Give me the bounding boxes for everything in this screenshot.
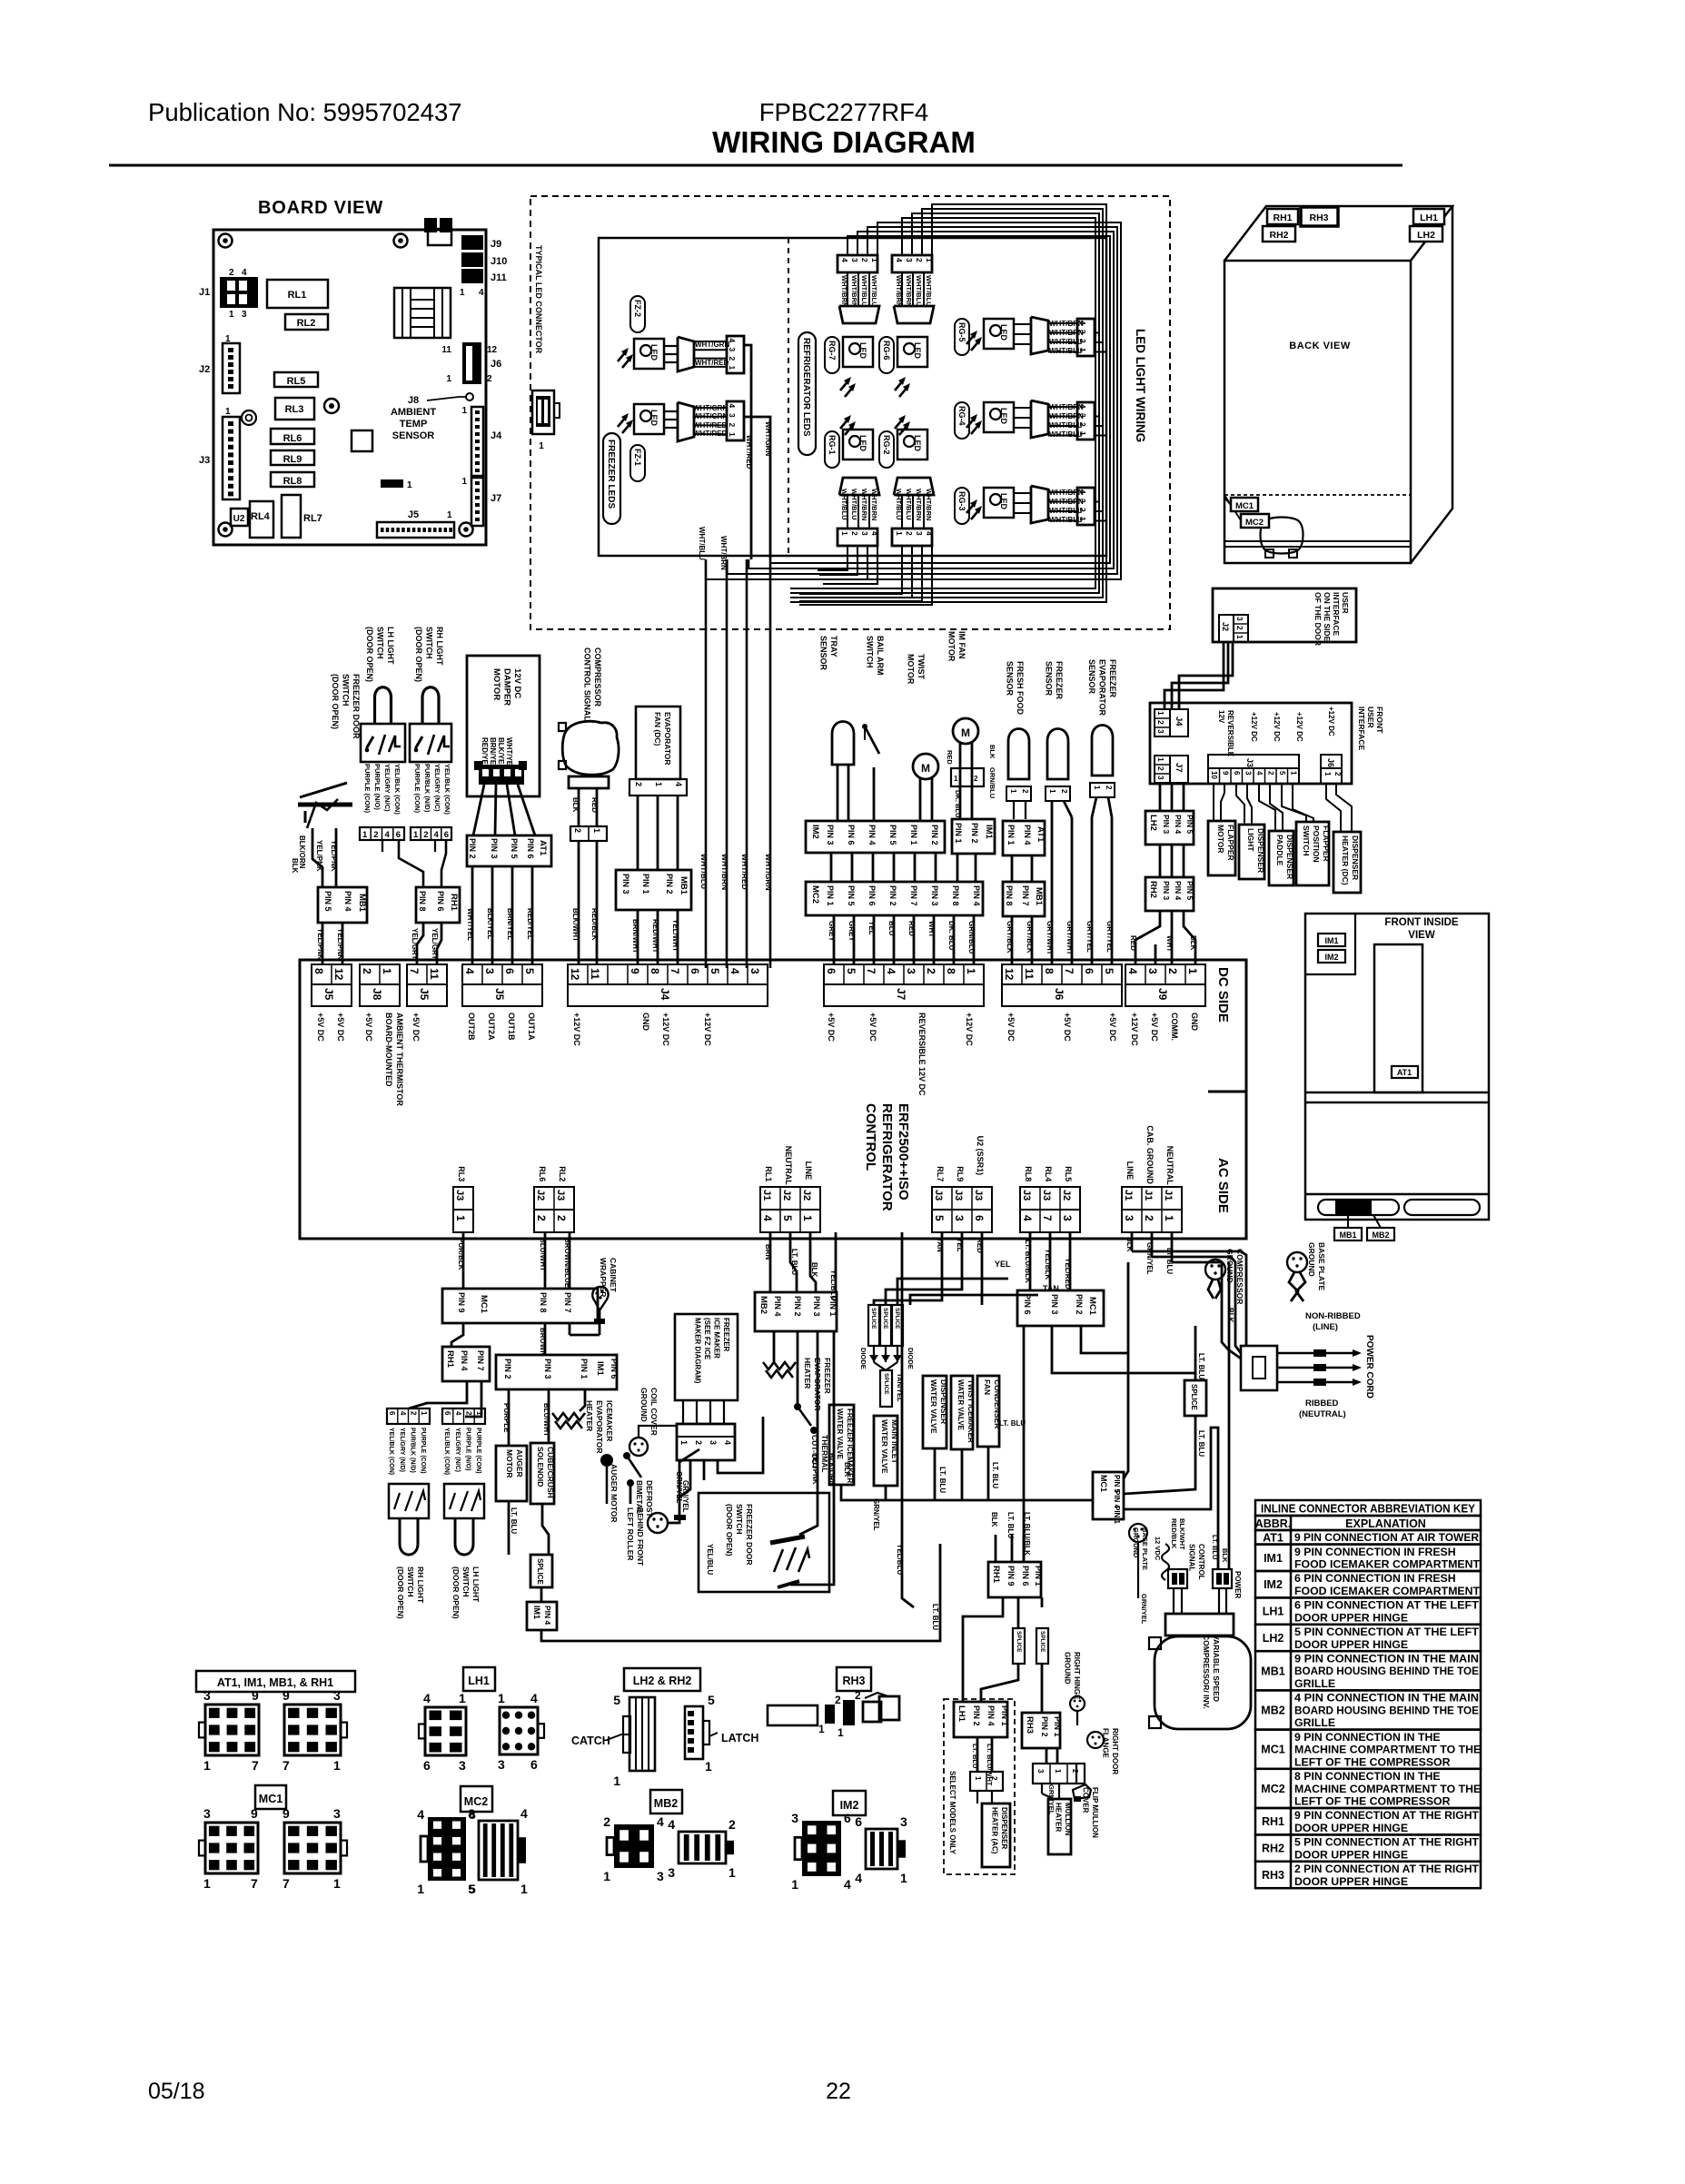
svg-text:4: 4: [1126, 968, 1139, 974]
RG-4 stadium label: [955, 402, 969, 439]
label MC2 back view: [1241, 514, 1269, 528]
wire IM1 pin4 to right rail: [541, 1544, 940, 1641]
bottom connector key MB2 label: [650, 1790, 682, 1813]
LED harness to RG-5: [1095, 322, 1095, 324]
svg-text:RG-3: RG-3: [957, 491, 966, 511]
svg-text:8: 8: [649, 968, 661, 974]
svg-text:LT. BLU: LT. BLU: [931, 1604, 939, 1630]
svg-text:BLU/WHT: BLU/WHT: [542, 1403, 550, 1437]
small component square: [352, 430, 372, 451]
label MB2 front view: [1367, 1228, 1394, 1240]
svg-text:PIN 2: PIN 2: [972, 1705, 981, 1726]
splice bank (3 splices): [868, 1305, 879, 1346]
svg-text:RED/WHT: RED/WHT: [651, 919, 659, 953]
svg-text:4: 4: [885, 968, 897, 974]
svg-text:DIODE: DIODE: [859, 1348, 867, 1369]
svg-text:GREY: GREY: [847, 921, 856, 942]
GRN/YEL ground wire inverter: [1137, 1562, 1139, 1598]
svg-text:OUT2B: OUT2B: [467, 1013, 476, 1041]
svg-text:2: 2: [229, 268, 234, 278]
svg-text:PIN 3: PIN 3: [1162, 815, 1171, 835]
wire RED from J3-6: [981, 1232, 984, 1305]
svg-text:05/18: 05/18: [148, 2079, 205, 2104]
wire BROWN/BLUE: [569, 1232, 571, 1289]
svg-text:RL6: RL6: [283, 433, 302, 444]
svg-text:(DOOR OPEN): (DOOR OPEN): [451, 1566, 461, 1619]
svg-text:2: 2: [1060, 789, 1068, 794]
wires RH1 to J5: [417, 923, 423, 964]
freezer LED FZ-2 stadium label: [630, 296, 645, 332]
svg-text:2: 2: [373, 830, 378, 840]
RH light switch connector pins 1 2 4 6: [411, 827, 451, 840]
svg-text:2: 2: [1156, 766, 1165, 771]
svg-text:COVER: COVER: [1082, 1787, 1090, 1813]
svg-text:J3: J3: [199, 455, 210, 466]
svg-text:1: 1: [1163, 1215, 1175, 1221]
svg-text:4: 4: [925, 531, 934, 536]
svg-text:SWITCH: SWITCH: [461, 1566, 471, 1597]
svg-text:7: 7: [865, 968, 877, 974]
svg-text:LT. BLU: LT. BLU: [510, 1507, 518, 1534]
svg-text:AT1, IM1, MB1, & RH1: AT1, IM1, MB1, & RH1: [217, 1676, 333, 1689]
refrigerator LED RG-3: [966, 486, 1095, 525]
bottom connector key AT1 IM1 MB1 RH1 label: [196, 1671, 355, 1692]
svg-text:OUT1B: OUT1B: [507, 1013, 516, 1041]
svg-text:MC1: MC1: [1235, 501, 1254, 511]
compressor ground symbol: [1205, 1260, 1225, 1280]
svg-text:2: 2: [465, 1411, 473, 1416]
svg-text:RED: RED: [1129, 935, 1137, 951]
svg-text:MC1: MC1: [479, 1295, 489, 1314]
svg-text:INLINE CONNECTOR ABBREVIATION: INLINE CONNECTOR ABBREVIATION KEY: [1261, 1503, 1476, 1516]
svg-text:M: M: [921, 762, 930, 775]
svg-text:COMPRESSOR: COMPRESSOR: [593, 647, 602, 707]
svg-text:2: 2: [1021, 789, 1029, 794]
svg-text:RL9: RL9: [956, 1166, 965, 1181]
svg-text:RG-5: RG-5: [957, 322, 966, 342]
wire YEL from J3-3: [886, 1232, 962, 1305]
svg-text:+12V DC: +12V DC: [1130, 1013, 1139, 1046]
svg-text:1: 1: [333, 1876, 341, 1891]
svg-text:WHT/BRN: WHT/BRN: [1049, 412, 1084, 420]
RG-6 stadium label: [879, 337, 894, 373]
svg-text:FREEZER: FREEZER: [722, 1318, 730, 1352]
svg-text:CAB. GROUND: CAB. GROUND: [1145, 1125, 1155, 1184]
svg-text:YEL/RED: YEL/RED: [1064, 1258, 1072, 1290]
bottom connector key LH2 RH2 label: [624, 1668, 700, 1691]
svg-text:2: 2: [728, 357, 737, 361]
svg-text:PIN 6: PIN 6: [867, 885, 877, 906]
svg-text:5 PIN CONNECTION AT THE RIGHT: 5 PIN CONNECTION AT THE RIGHT: [1294, 1836, 1479, 1849]
connector MC2 row: [806, 882, 983, 915]
base plate ground symbol top: [1287, 1252, 1307, 1272]
svg-text:LH1: LH1: [468, 1675, 490, 1687]
svg-text:WHT/BRN: WHT/BRN: [1049, 403, 1084, 411]
svg-text:4: 4: [520, 1806, 528, 1821]
freezer evap sensor wires to J6: [1092, 797, 1096, 817]
RH3 connector housing: [768, 1705, 818, 1725]
light switch LH LIGHT: [442, 1408, 485, 1424]
variable speed compressor blob: [1155, 1636, 1251, 1729]
wire WHT/BRN from LED box: [726, 559, 729, 968]
splice box icemaker: [530, 1555, 552, 1587]
svg-text:LT. BLU: LT. BLU: [999, 1419, 1026, 1428]
svg-text:PURPLE (CON): PURPLE (CON): [420, 1428, 426, 1474]
freezer LED wires down: [744, 345, 751, 559]
svg-text:RL8: RL8: [1024, 1166, 1033, 1181]
svg-text:AUGER: AUGER: [515, 1449, 524, 1477]
svg-text:5: 5: [613, 1693, 620, 1707]
svg-text:PIN 2: PIN 2: [503, 1359, 512, 1379]
svg-text:PIN 2: PIN 2: [930, 825, 939, 845]
RH3 pin pair 2: [843, 1700, 855, 1725]
svg-text:MC1: MC1: [1099, 1475, 1108, 1492]
svg-text:1: 1: [1235, 635, 1244, 639]
hinge label RH1: [1267, 209, 1298, 224]
svg-text:2: 2: [915, 258, 924, 262]
base plate ground lower: [1129, 1524, 1147, 1542]
svg-text:WHT/RED: WHT/RED: [745, 435, 753, 469]
svg-text:(DOOR OPEN): (DOOR OPEN): [331, 674, 340, 729]
condenser fan box: [977, 1376, 999, 1447]
wire YEL/BLK from J3-7: [1049, 1232, 1052, 1290]
freezer sensor wires to J6: [1051, 801, 1054, 964]
svg-text:LH1: LH1: [956, 1705, 966, 1723]
svg-text:2: 2: [850, 531, 859, 536]
svg-text:BLK: BLK: [1189, 935, 1197, 951]
svg-text:MC2: MC2: [1261, 1783, 1284, 1795]
svg-text:(DOOR OPEN): (DOOR OPEN): [725, 1504, 734, 1556]
svg-text:3: 3: [333, 1688, 341, 1703]
svg-text:FAN (DC): FAN (DC): [653, 712, 662, 746]
svg-text:6: 6: [855, 1814, 862, 1829]
wire WHT/BLU from LED box: [705, 559, 708, 968]
svg-text:MB2: MB2: [1372, 1230, 1389, 1240]
svg-text:PIN 6: PIN 6: [1023, 1294, 1032, 1315]
svg-text:LT. BLU: LT. BLU: [1006, 1512, 1015, 1538]
svg-text:1: 1: [900, 1871, 907, 1885]
svg-text:2: 2: [990, 1776, 998, 1781]
svg-text:GROUND: GROUND: [639, 1388, 649, 1422]
svg-text:WHT/BLU: WHT/BLU: [840, 489, 848, 520]
svg-text:YEL/WHT: YEL/WHT: [671, 919, 679, 952]
svg-text:PIN 8: PIN 8: [539, 1292, 548, 1313]
cabinet wrapper ground symbol: [592, 1287, 608, 1310]
svg-text:1: 1: [1290, 771, 1298, 776]
svg-text:PIN 1: PIN 1: [641, 874, 650, 894]
svg-text:6: 6: [444, 830, 449, 840]
svg-text:PIN 1: PIN 1: [1000, 1705, 1009, 1726]
svg-text:PIN 6: PIN 6: [1021, 1566, 1030, 1586]
svg-text:3: 3: [1235, 617, 1244, 621]
svg-text:AT1: AT1: [1036, 826, 1046, 843]
refrigerator LED RG-5: [966, 317, 1095, 356]
label IM1 front view: [1318, 934, 1345, 946]
svg-text:RG-1: RG-1: [828, 435, 837, 455]
svg-text:YEL: YEL: [995, 1260, 1011, 1269]
wire WHT/RED from LED box: [746, 559, 748, 968]
svg-text:AC SIDE: AC SIDE: [1215, 1158, 1231, 1213]
svg-text:PURPLE (N/O): PURPLE (N/O): [465, 1428, 471, 1470]
wires to J4 11 12: [578, 841, 580, 964]
svg-text:SPLICE: SPLICE: [1016, 1631, 1022, 1653]
svg-text:WHT/BLU: WHT/BLU: [698, 527, 706, 560]
right hinge ground symbol: [1070, 1696, 1085, 1711]
svg-text:MACHINE COMPARTMENT TO THE: MACHINE COMPARTMENT TO THE: [1294, 1783, 1481, 1795]
svg-text:+12V DC: +12V DC: [703, 1013, 712, 1046]
svg-text:BROWN: BROWN: [539, 1328, 547, 1356]
svg-text:IM2: IM2: [810, 825, 820, 839]
svg-text:BLK/WHT: BLK/WHT: [1178, 1518, 1186, 1550]
svg-text:3: 3: [459, 1758, 466, 1773]
relay RL1: [267, 280, 328, 308]
svg-text:1: 1: [1093, 786, 1101, 790]
svg-text:WHT/BRN: WHT/BRN: [1049, 320, 1084, 328]
svg-text:SELECT MODELS ONLY: SELECT MODELS ONLY: [948, 1771, 956, 1854]
svg-text:LT. BLU: LT. BLU: [991, 1462, 999, 1488]
wires to dispenser heater AC: [976, 1791, 978, 1804]
refrigerator LED RG-7: [838, 255, 879, 397]
svg-text:4: 4: [844, 1877, 851, 1892]
svg-text:PIN 1: PIN 1: [909, 825, 918, 845]
svg-text:J5: J5: [493, 988, 506, 1001]
svg-text:1: 1: [679, 1440, 689, 1445]
svg-text:6 PIN CONNECTION IN FRESH: 6 PIN CONNECTION IN FRESH: [1294, 1572, 1456, 1585]
svg-text:DK. BLU: DK. BLU: [947, 921, 956, 951]
svg-text:10: 10: [1210, 771, 1218, 779]
svg-text:1: 1: [654, 782, 663, 786]
svg-text:DOOR UPPER HINGE: DOOR UPPER HINGE: [1294, 1875, 1408, 1888]
freezer icemaker water valve: [829, 1405, 854, 1485]
svg-text:+5V DC: +5V DC: [1150, 1013, 1159, 1042]
svg-text:RL3: RL3: [457, 1166, 466, 1181]
svg-text:1: 1: [613, 1774, 620, 1788]
AC connector J3/J2 (RL8, RL4, RL5): [1020, 1187, 1080, 1210]
board screw mid: [324, 399, 339, 413]
svg-text:IM1: IM1: [595, 1361, 605, 1377]
connector J9 (pins 4,3,2,1): [1125, 964, 1205, 984]
svg-text:4: 4: [840, 258, 849, 262]
svg-text:WHT/GRN: WHT/GRN: [764, 421, 772, 456]
MC1 socket face: [284, 1823, 341, 1873]
refrigerator LED RG-2: [892, 415, 934, 546]
svg-text:PIN 2: PIN 2: [468, 838, 477, 859]
connector MB1 (pin5 pin4): [318, 887, 367, 923]
connector J5 (pins 7,11): [407, 964, 447, 984]
svg-text:2: 2: [535, 1215, 548, 1221]
svg-text:J3: J3: [973, 1190, 984, 1201]
dispenser heater AC box: [982, 1804, 1010, 1867]
svg-text:2: 2: [573, 828, 582, 833]
refrigerator LED RG-4: [966, 400, 1095, 440]
svg-text:WHT/BLU: WHT/BLU: [1049, 430, 1083, 439]
connector MB1 row right: [1003, 882, 1045, 916]
svg-text:PURPLE (CON): PURPLE (CON): [363, 764, 372, 814]
RG-2 stadium label: [879, 431, 894, 468]
wires to power cord: [1132, 1250, 1241, 1253]
svg-text:9 PIN CONNECTION AT AIR TOWER: 9 PIN CONNECTION AT AIR TOWER: [1294, 1531, 1479, 1544]
svg-text:GRN/YEL: GRN/YEL: [1140, 1594, 1148, 1625]
svg-text:YEL/PNK: YEL/PNK: [330, 840, 338, 872]
svg-text:1: 1: [225, 407, 231, 417]
svg-text:5: 5: [781, 1215, 794, 1221]
svg-text:SWITCH: SWITCH: [376, 627, 385, 659]
svg-text:IM2: IM2: [840, 1799, 859, 1812]
svg-text:RED/YEL: RED/YEL: [526, 908, 534, 940]
svg-text:PIN 2: PIN 2: [1075, 1294, 1084, 1315]
svg-text:GND: GND: [1190, 1013, 1199, 1032]
svg-text:1: 1: [801, 1215, 814, 1221]
dispenser component: dispenser paddle: [1269, 831, 1293, 885]
evaporator fan (DC): [636, 707, 680, 779]
svg-text:PIN 5: PIN 5: [510, 838, 519, 859]
svg-text:7: 7: [282, 1758, 290, 1773]
svg-text:DISPENSER: DISPENSER: [939, 1379, 948, 1424]
wires J6 to dispenser heater: [1326, 784, 1341, 832]
svg-text:+5V DC: +5V DC: [1006, 1013, 1016, 1042]
svg-text:2: 2: [694, 1440, 703, 1445]
svg-text:J10: J10: [491, 256, 507, 267]
svg-text:RH3: RH3: [1025, 1716, 1035, 1734]
svg-text:DISPENSER: DISPENSER: [1285, 835, 1294, 879]
svg-text:RH3: RH3: [842, 1675, 865, 1687]
svg-text:YEL/BLK (CON): YEL/BLK (CON): [393, 764, 401, 815]
svg-text:SWITCH: SWITCH: [1302, 825, 1311, 856]
svg-text:FPBC2277RF4: FPBC2277RF4: [759, 98, 928, 126]
svg-text:SPLICE: SPLICE: [894, 1308, 900, 1329]
svg-text:POWER CORD: POWER CORD: [1364, 1335, 1374, 1398]
svg-text:9: 9: [252, 1688, 259, 1703]
svg-text:YEL/BLK (CON): YEL/BLK (CON): [388, 1428, 394, 1475]
svg-text:3: 3: [1244, 771, 1253, 776]
svg-text:INTERFACE: INTERFACE: [1332, 592, 1341, 637]
svg-text:MOTOR: MOTOR: [947, 631, 956, 662]
svg-text:IM2: IM2: [1264, 1578, 1283, 1591]
svg-text:MACHINE COMPARTMENT TO THE: MACHINE COMPARTMENT TO THE: [1294, 1744, 1481, 1756]
wires mullion heater: [1041, 1784, 1043, 1794]
power cord leads: [1277, 1352, 1353, 1355]
connector RH1 (pin4 pin7): [442, 1347, 490, 1381]
svg-text:6: 6: [388, 1411, 396, 1416]
svg-text:+5V DC: +5V DC: [364, 1013, 373, 1042]
svg-text:SPLICE: SPLICE: [883, 1373, 889, 1395]
svg-text:1: 1: [225, 334, 231, 344]
svg-text:1: 1: [1048, 789, 1056, 794]
svg-text:J1: J1: [761, 1190, 772, 1201]
svg-text:(SEE FZ ICE: (SEE FZ ICE: [703, 1318, 711, 1360]
svg-text:7: 7: [252, 1758, 259, 1773]
svg-text:3: 3: [668, 1865, 675, 1880]
svg-text:LT. BLU/BLK: LT. BLU/BLK: [1024, 1240, 1032, 1283]
connector MC1 (pin9 pin8 pin7): [442, 1289, 598, 1323]
connector J7 (pins 6,5,7,4,3,2,8,1): [824, 964, 984, 984]
wires into RH1 lower: [1023, 1535, 1026, 1562]
svg-text:3: 3: [333, 1806, 341, 1821]
svg-text:MC1: MC1: [1261, 1744, 1284, 1756]
svg-text:GROUND: GROUND: [1064, 1652, 1072, 1685]
svg-text:LED: LED: [858, 342, 867, 360]
hinge label LH1: [1413, 209, 1444, 224]
svg-text:LT. BLU: LT. BLU: [1197, 1430, 1205, 1457]
svg-text:1: 1: [603, 1869, 610, 1883]
svg-text:FREEZER LEDS: FREEZER LEDS: [606, 440, 616, 509]
svg-text:PURPLE (CON): PURPLE (CON): [413, 764, 421, 814]
AT1/IM1/MB1/RH1 socket face: [284, 1705, 341, 1755]
LT. BLU rail bottom: [841, 1485, 1092, 1500]
relay RL7: [282, 495, 301, 538]
wires MC1 down: [1023, 1326, 1026, 1562]
svg-text:MULLION: MULLION: [1064, 1803, 1072, 1836]
svg-text:YEL/PNK: YEL/PNK: [811, 1453, 819, 1485]
LH1 plug face: [425, 1707, 466, 1755]
svg-text:LH LIGHT: LH LIGHT: [386, 627, 395, 665]
typical LED connector symbol: [532, 390, 554, 434]
svg-text:OF THE DOOR: OF THE DOOR: [1313, 592, 1323, 646]
svg-text:PIN 4: PIN 4: [773, 1296, 782, 1317]
svg-text:3: 3: [1156, 776, 1165, 780]
diode network wires: [873, 1346, 875, 1362]
label MB1 front view: [1334, 1228, 1362, 1240]
svg-text:1: 1: [791, 1877, 798, 1892]
svg-text:FRONT: FRONT: [1375, 707, 1384, 734]
svg-text:12V: 12V: [1217, 710, 1225, 724]
svg-text:9 PIN CONNECTION IN THE MAIN: 9 PIN CONNECTION IN THE MAIN: [1294, 1652, 1479, 1665]
svg-text:8: 8: [945, 968, 957, 974]
svg-text:2: 2: [487, 374, 492, 384]
svg-text:+5V DC: +5V DC: [411, 1013, 421, 1042]
svg-text:GRN/BLU: GRN/BLU: [967, 921, 976, 954]
label FREEZER LEDS stadium: [603, 433, 620, 524]
freezer LED FZ-2: [618, 351, 627, 361]
svg-text:4: 4: [479, 288, 484, 298]
right door flange ground: [1087, 1732, 1104, 1748]
svg-text:WATER VALVE: WATER VALVE: [880, 1419, 889, 1474]
svg-text:FREEZER DOOR: FREEZER DOOR: [352, 674, 361, 739]
svg-text:6: 6: [825, 968, 838, 974]
svg-text:9 PIN CONNECTION IN FRESH: 9 PIN CONNECTION IN FRESH: [1294, 1546, 1456, 1558]
svg-text:RED: RED: [946, 750, 954, 765]
header rule: [109, 164, 1403, 167]
svg-text:COMM.: COMM.: [1170, 1013, 1179, 1041]
svg-text:PIN 1: PIN 1: [954, 823, 963, 844]
wires down to RH1 lower: [995, 1535, 997, 1562]
svg-text:MOTOR: MOTOR: [491, 668, 501, 700]
svg-text:J2: J2: [535, 1190, 546, 1201]
wires freezer door switch: [799, 1331, 818, 1535]
svg-text:1: 1: [460, 288, 465, 298]
svg-text:PUR/BLK (N/D): PUR/BLK (N/D): [410, 1428, 416, 1473]
svg-text:6: 6: [1233, 771, 1241, 776]
board mounting screw bottom-right: [460, 523, 473, 537]
svg-text:ON THE SIDE: ON THE SIDE: [1323, 592, 1332, 642]
svg-text:RH LIGHT: RH LIGHT: [435, 627, 444, 666]
LED harness to RG-3: [1095, 491, 1095, 493]
svg-text:8: 8: [468, 1806, 475, 1821]
svg-text:WHT/YEL: WHT/YEL: [466, 908, 474, 941]
svg-text:ABBR.: ABBR.: [1255, 1517, 1292, 1530]
svg-text:RIGHT DOOR: RIGHT DOOR: [1111, 1728, 1119, 1774]
small header on board: [381, 479, 403, 488]
main inlet water valve: [874, 1416, 897, 1486]
svg-text:PIN 2: PIN 2: [793, 1296, 802, 1317]
svg-text:LH2: LH2: [1417, 230, 1435, 241]
svg-text:TAN: TAN: [936, 1238, 944, 1252]
svg-text:6: 6: [844, 1811, 851, 1825]
svg-text:6: 6: [503, 968, 516, 974]
svg-text:12: 12: [569, 968, 581, 981]
svg-text:TWIST: TWIST: [917, 654, 926, 679]
svg-text:IM FAN: IM FAN: [957, 631, 966, 659]
